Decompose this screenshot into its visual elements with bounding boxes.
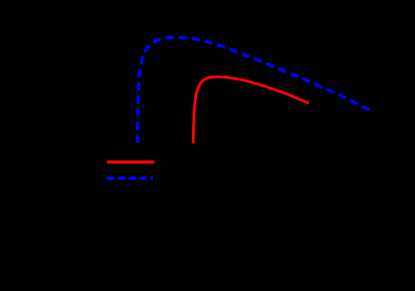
blue dashed curve bbox=[137, 37, 369, 143]
red solid curve bbox=[193, 77, 309, 144]
legend red solid bbox=[107, 161, 154, 164]
legend blue dashed bbox=[107, 177, 153, 180]
